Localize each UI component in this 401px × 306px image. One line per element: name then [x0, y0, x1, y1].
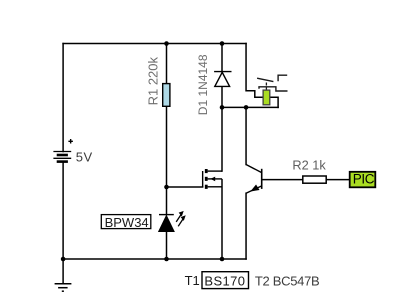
svg-text:T2 BC547B: T2 BC547B	[255, 273, 320, 288]
node ground rail left	[61, 257, 66, 262]
switch mechanical link dashed	[265, 83, 267, 90]
wire R2 to PIC	[327, 179, 349, 181]
node D1 top	[220, 41, 225, 46]
wire battery bottom to ground rail	[62, 162, 64, 259]
diode D1 1N4148	[214, 72, 231, 87]
drain stub	[208, 170, 222, 172]
switch lever	[257, 78, 273, 81]
wire BPW34 bottom	[166, 232, 168, 260]
wire R1 bottom to BPW34 top	[166, 106, 168, 214]
gate bar	[202, 171, 204, 187]
svg-text:T1: T1	[185, 273, 200, 288]
emitter diagonal	[246, 186, 261, 193]
resistor R2	[303, 176, 326, 183]
svg-text:BPW34: BPW34	[105, 215, 149, 230]
label BS170 box	[202, 272, 249, 289]
emitter arrow	[251, 185, 259, 191]
svg-text:R2 1k: R2 1k	[292, 157, 326, 172]
body stub	[208, 178, 222, 180]
wire node rail D1 anode to switch return	[222, 106, 278, 108]
light arrow 1	[176, 215, 181, 222]
node R1 top	[164, 41, 169, 46]
svg-text:BS170: BS170	[204, 273, 245, 288]
svg-text:D1 1N4148: D1 1N4148	[196, 54, 210, 115]
transistor T2 BC547B	[246, 165, 262, 194]
wire bottom rail	[63, 258, 246, 260]
battery plus sign	[68, 139, 73, 144]
switch pole line	[259, 87, 288, 91]
collector diagonal	[246, 165, 261, 173]
filled triangle	[159, 216, 174, 232]
svg-text:5V: 5V	[76, 149, 93, 164]
switch upper throw contact	[278, 75, 287, 81]
label BPW34 box	[101, 215, 151, 229]
battery BT1	[53, 152, 71, 162]
wire switch body right return	[270, 97, 278, 107]
wire T1 drain vertical	[221, 107, 223, 171]
wire D1 top	[221, 44, 223, 72]
node D1 anode drain	[220, 105, 225, 110]
wire R1 top	[166, 44, 168, 84]
node gate R1 bottom	[164, 185, 169, 190]
wire T2 emitter vertical	[245, 193, 247, 259]
switch body green	[263, 90, 270, 105]
base bar	[261, 169, 263, 189]
node collector switch return	[244, 105, 249, 110]
wire left vertical battery top	[62, 44, 64, 152]
channel segment source	[205, 185, 208, 189]
PIC box	[350, 172, 376, 188]
wire top rail	[63, 43, 246, 45]
body-source vertical continuing to source down	[221, 179, 223, 259]
ground	[55, 259, 72, 291]
node T1 source	[220, 257, 225, 262]
wire switch branch from top rail	[246, 44, 263, 98]
svg-text:PIC: PIC	[353, 172, 375, 187]
wire T2 base to R2	[262, 179, 302, 181]
resistor R1	[163, 84, 170, 107]
source stub	[208, 186, 222, 188]
wire T2 collector vertical	[245, 107, 247, 164]
wire D1 bottom	[221, 86, 223, 107]
wire T1 gate	[167, 186, 203, 188]
channel segment drain	[205, 169, 208, 173]
light arrow 2	[178, 219, 183, 226]
node BPW34 bottom	[164, 257, 169, 262]
transistor T1 BS170 MOSFET	[203, 169, 222, 259]
svg-text:R1 220k: R1 220k	[145, 56, 160, 105]
body arrow	[210, 177, 215, 182]
photodiode BPW34	[159, 212, 185, 232]
channel segment body	[205, 177, 208, 181]
cathode bar	[159, 214, 174, 216]
